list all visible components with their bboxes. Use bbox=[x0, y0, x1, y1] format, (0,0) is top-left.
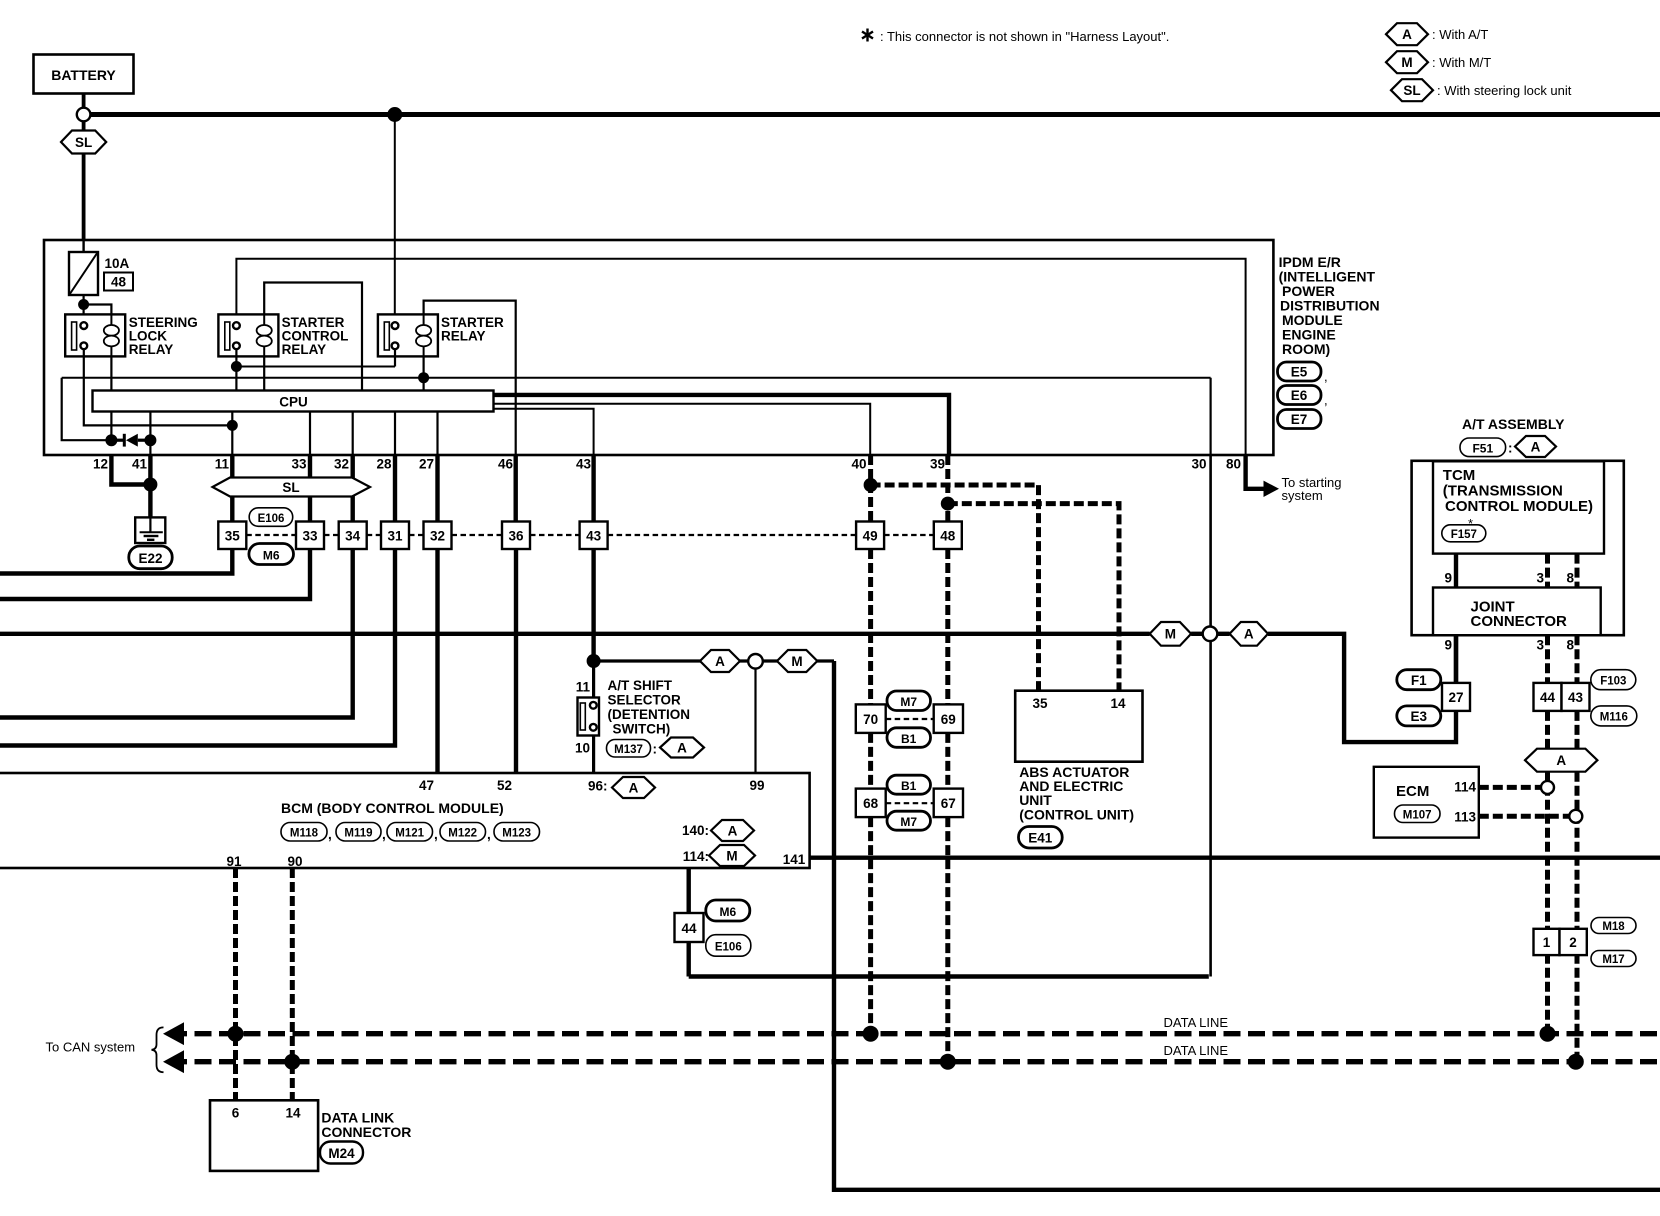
svg-text:27: 27 bbox=[1448, 690, 1463, 705]
wire BCM 141 output bbox=[810, 856, 1660, 860]
wire 48 to 69 checkered bbox=[945, 549, 950, 704]
connector E22 bbox=[129, 546, 172, 569]
wire 70 to 68 checkered bbox=[868, 733, 873, 789]
connector option M hexagon wire3 bbox=[1150, 622, 1191, 646]
wire 43 box down checkered bbox=[1575, 711, 1580, 749]
svg-text:E3: E3 bbox=[1411, 709, 1428, 724]
svg-text:27: 27 bbox=[419, 457, 434, 472]
svg-text:M: M bbox=[791, 654, 802, 669]
svg-text:67: 67 bbox=[941, 796, 956, 811]
svg-text:SWITCH): SWITCH) bbox=[613, 722, 671, 737]
svg-text:A: A bbox=[629, 780, 639, 795]
svg-text:: With steering lock unit: : With steering lock unit bbox=[1437, 83, 1572, 98]
svg-text:M118: M118 bbox=[290, 828, 319, 840]
wire CPU pin to 28 bbox=[394, 412, 396, 456]
svg-text:A/T SHIFT: A/T SHIFT bbox=[608, 678, 673, 693]
node fuse output bbox=[78, 299, 89, 310]
joint connector box bbox=[1433, 588, 1601, 636]
svg-text:114: 114 bbox=[1454, 780, 1476, 795]
connector B1 upper bbox=[887, 728, 931, 748]
node contact rail junction bbox=[231, 361, 242, 372]
terminal box 1 bbox=[1534, 929, 1560, 955]
wire CPU right to pin 40 bbox=[494, 404, 871, 455]
node starter relay coil junction bbox=[418, 372, 429, 383]
svg-text:140:: 140: bbox=[682, 823, 709, 838]
terminal box 33 bbox=[296, 522, 324, 550]
terminal box 48 bbox=[934, 522, 962, 550]
wire BCM 91 to DLC checkered bbox=[233, 868, 238, 1100]
data link connector box bbox=[210, 1100, 411, 1171]
svg-text::: : bbox=[653, 742, 658, 757]
wire to detention switch top bbox=[592, 661, 595, 702]
terminal box 36 bbox=[502, 522, 530, 550]
wire steering relay coil down bbox=[110, 356, 112, 440]
svg-text:44: 44 bbox=[1540, 690, 1556, 705]
svg-text:A: A bbox=[1244, 627, 1254, 642]
relay K3 starter relay bbox=[378, 314, 504, 356]
svg-text:SL: SL bbox=[1403, 83, 1420, 98]
svg-text:9: 9 bbox=[1444, 638, 1452, 653]
svg-text:M17: M17 bbox=[1602, 954, 1624, 966]
wire pin 12 to ground node bbox=[111, 455, 150, 485]
terminal box 27 bbox=[1442, 683, 1470, 711]
svg-text:70: 70 bbox=[863, 712, 878, 727]
node diode-pin41 junction bbox=[144, 434, 156, 446]
wire pin 80 to starting system with arrow bbox=[1246, 455, 1342, 503]
connector M17 bbox=[1591, 951, 1636, 967]
battery junction circle bbox=[77, 108, 91, 122]
svg-text:M24: M24 bbox=[328, 1146, 355, 1161]
svg-text:BCM (BODY CONTROL MODULE): BCM (BODY CONTROL MODULE) bbox=[281, 800, 504, 816]
wire starter control relay contact top to pin80 rail bbox=[236, 259, 1245, 455]
connector M24 bbox=[320, 1142, 363, 1164]
connector option SL hexagon bbox=[61, 131, 106, 154]
node 67 on data2 bbox=[940, 1054, 956, 1070]
connector M7 lower bbox=[887, 811, 931, 830]
svg-text:A: A bbox=[677, 740, 687, 755]
connector M7 upper bbox=[887, 691, 931, 711]
svg-text:48: 48 bbox=[940, 529, 956, 544]
connector F1 bbox=[1397, 670, 1441, 690]
connector M6 BCM bbox=[706, 900, 750, 921]
svg-text:39: 39 bbox=[930, 457, 945, 472]
terminal box 67 bbox=[934, 789, 963, 818]
svg-text:A: A bbox=[1556, 753, 1566, 768]
node wire4 branch bbox=[587, 654, 601, 668]
node ground junction bbox=[143, 478, 157, 492]
wire contact bottoms linked bbox=[236, 366, 395, 368]
wire CPU right to pin 39 bbox=[494, 395, 949, 455]
svg-text:A/T ASSEMBLY: A/T ASSEMBLY bbox=[1462, 416, 1565, 432]
data line 1 bbox=[170, 1031, 1660, 1036]
wire BCM 114 to pin 30 column bbox=[689, 974, 1209, 978]
svg-text:(TRANSMISSION: (TRANSMISSION bbox=[1443, 483, 1563, 500]
wire A hex to data line 1 checkered bbox=[1545, 772, 1550, 1034]
svg-text:E106: E106 bbox=[715, 942, 742, 954]
wire pin 41 to ground bbox=[148, 455, 152, 517]
svg-text:ECM: ECM bbox=[1396, 783, 1429, 800]
wire circle to A hex bbox=[1217, 632, 1229, 636]
wire battery feed to starter relay contact bbox=[394, 115, 396, 323]
wire starter relay coil bottom to line B and CPU bbox=[423, 356, 425, 390]
wire TCM 9 to joint bbox=[1454, 554, 1458, 588]
svg-text:3: 3 bbox=[1536, 571, 1544, 586]
svg-text:44: 44 bbox=[681, 921, 697, 936]
svg-text:E6: E6 bbox=[1291, 388, 1308, 403]
svg-text:E7: E7 bbox=[1291, 412, 1308, 427]
pin labels under IPDM bbox=[93, 457, 1241, 472]
wire joint 8 down checkered bbox=[1575, 635, 1580, 683]
wire TCM 8 to joint checkered bbox=[1575, 554, 1580, 588]
wire fuse bottom bbox=[82, 295, 84, 322]
wire SL hexagon to IPDM bbox=[82, 154, 86, 242]
svg-text:SELECTOR: SELECTOR bbox=[608, 693, 682, 708]
svg-text:43: 43 bbox=[1568, 690, 1584, 705]
svg-text:14: 14 bbox=[285, 1106, 301, 1121]
svg-text:35: 35 bbox=[1032, 696, 1048, 711]
svg-text:M122: M122 bbox=[448, 828, 477, 840]
connector option wide A hexagon bbox=[1525, 749, 1597, 772]
wire 31 to left bbox=[0, 549, 395, 746]
svg-text::: : bbox=[1508, 441, 1513, 456]
svg-text:M6: M6 bbox=[263, 549, 280, 563]
svg-text:33: 33 bbox=[291, 457, 307, 472]
svg-text:31: 31 bbox=[387, 529, 403, 544]
terminal box 69 bbox=[934, 704, 963, 733]
ABS actuator box bbox=[1015, 691, 1142, 823]
wire contact rail between relays bbox=[235, 349, 237, 390]
diode D1 bbox=[111, 434, 150, 447]
svg-text:DATA LINE: DATA LINE bbox=[1164, 1015, 1229, 1030]
svg-text:: This connector is not shown: : This connector is not shown in "Harnes… bbox=[880, 29, 1169, 44]
connector option SL big hexagon bbox=[213, 478, 371, 497]
wire 4 down right side bbox=[834, 661, 1660, 1190]
terminal box 35 bbox=[218, 522, 246, 550]
connector M18 bbox=[1591, 918, 1636, 934]
dashed link 68-67 bbox=[886, 802, 934, 804]
terminal box 2 bbox=[1560, 929, 1587, 955]
wire branch to ABS pin14 checkered bbox=[948, 504, 1119, 691]
svg-text:,: , bbox=[1324, 369, 1328, 384]
svg-text:: With A/T: : With A/T bbox=[1432, 27, 1488, 42]
svg-text:99: 99 bbox=[749, 778, 764, 793]
svg-text:49: 49 bbox=[863, 529, 878, 544]
wire pin 27 column bbox=[435, 455, 439, 522]
wire CPU right to pin 43 bbox=[494, 409, 594, 455]
svg-text:32: 32 bbox=[430, 529, 445, 544]
legend hexagon A bbox=[1386, 23, 1488, 45]
wire battery feed inside IPDM to starter relay bbox=[394, 240, 396, 322]
wire splice to BCM 99 bbox=[754, 669, 756, 773]
svg-text:11: 11 bbox=[215, 457, 230, 472]
terminal box 31 bbox=[381, 522, 409, 550]
wire pin 43 column bbox=[591, 455, 595, 522]
arrow data line 1 bbox=[163, 1022, 184, 1045]
splice circle ECM 113 bbox=[1569, 810, 1582, 823]
terminal box 44 BCM bbox=[675, 913, 704, 942]
svg-text:91: 91 bbox=[226, 854, 242, 869]
svg-text:E5: E5 bbox=[1291, 365, 1308, 380]
node pin11 junction bbox=[227, 420, 238, 431]
svg-text:48: 48 bbox=[111, 275, 127, 290]
wire ECM 114 checkered bbox=[1479, 785, 1542, 790]
splice circle wire4 bbox=[748, 654, 763, 669]
svg-text:To CAN system: To CAN system bbox=[46, 1040, 136, 1055]
wire TCM 3 to joint checkered bbox=[1545, 554, 1550, 588]
svg-text:47: 47 bbox=[419, 778, 434, 793]
pin labels 9 3 8 upper bbox=[1444, 571, 1574, 586]
terminal box 43 right bbox=[1562, 683, 1590, 711]
node BCM91 on data1 bbox=[228, 1026, 244, 1042]
wire 44 box down checkered bbox=[1545, 711, 1550, 749]
svg-text:A: A bbox=[1531, 439, 1541, 454]
svg-text:M: M bbox=[726, 848, 737, 863]
wire battery bus bbox=[90, 112, 1660, 117]
svg-text:141: 141 bbox=[783, 852, 806, 867]
wire M hex to circle bbox=[1191, 632, 1203, 636]
svg-text:6: 6 bbox=[232, 1106, 240, 1121]
wire 3 to joint connector pin 9 bbox=[1268, 634, 1456, 742]
wire fuse to steering relay coil bbox=[84, 305, 112, 327]
connector B1 lower bbox=[887, 775, 931, 794]
wire 69 to 67 checkered bbox=[945, 733, 950, 789]
wire 43 to detention switch bbox=[591, 549, 595, 661]
svg-text:E22: E22 bbox=[138, 551, 162, 566]
svg-text:11: 11 bbox=[576, 680, 591, 695]
svg-text:M7: M7 bbox=[900, 815, 917, 829]
wire line B to pin 30 bbox=[1209, 378, 1211, 455]
legend hexagon SL bbox=[1391, 79, 1572, 101]
svg-text:CONNECTOR: CONNECTOR bbox=[321, 1124, 411, 1140]
svg-text:,: , bbox=[1324, 393, 1328, 408]
wire pin 39 column checkered bbox=[945, 455, 950, 522]
svg-text:8: 8 bbox=[1566, 571, 1574, 586]
wire pin 40 column checkered bbox=[868, 455, 873, 522]
svg-text:1: 1 bbox=[1543, 935, 1551, 950]
svg-text:(CONTROL UNIT): (CONTROL UNIT) bbox=[1019, 807, 1134, 823]
wire branch to ABS pin35 checkered bbox=[871, 485, 1039, 691]
wire pin 32 column bbox=[351, 455, 355, 522]
wire 34 to left bbox=[0, 549, 353, 718]
svg-text:35: 35 bbox=[225, 529, 241, 544]
wire pin 33 column bbox=[308, 455, 312, 522]
svg-text:M6: M6 bbox=[719, 905, 736, 919]
svg-text:80: 80 bbox=[1226, 457, 1241, 472]
svg-text:96:: 96: bbox=[588, 779, 608, 794]
svg-text:10: 10 bbox=[575, 741, 590, 756]
svg-text:34: 34 bbox=[345, 529, 361, 544]
svg-text:8: 8 bbox=[1566, 638, 1574, 653]
wire joint 3 down checkered bbox=[1545, 635, 1550, 683]
svg-text:TCM: TCM bbox=[1443, 467, 1476, 484]
svg-text:F103: F103 bbox=[1600, 676, 1626, 688]
BCM box bbox=[0, 773, 810, 869]
svg-text:B1: B1 bbox=[901, 732, 917, 746]
wire pin 28 column bbox=[393, 455, 397, 522]
svg-text:F1: F1 bbox=[1411, 673, 1427, 688]
svg-text:M116: M116 bbox=[1600, 712, 1628, 724]
wire pin 30 column lower bbox=[1209, 641, 1212, 976]
svg-text:ROOM): ROOM) bbox=[1282, 341, 1330, 357]
connector E5 bbox=[1278, 362, 1328, 384]
wire CPU pin to 11 bbox=[231, 412, 233, 456]
wire 36 to BCM 52 bbox=[514, 549, 518, 773]
svg-text:,: , bbox=[328, 827, 332, 842]
svg-text:M119: M119 bbox=[344, 828, 372, 840]
terminal box 32 bbox=[424, 522, 452, 550]
data line 2 bbox=[170, 1059, 1660, 1064]
node BCM90 on data2 bbox=[284, 1054, 300, 1070]
svg-text:113: 113 bbox=[1454, 810, 1476, 825]
connector M116 bbox=[1591, 706, 1637, 726]
connector row E106/M6 dashed links bbox=[246, 534, 934, 536]
connector M137 with A bbox=[607, 738, 705, 758]
svg-text:SL: SL bbox=[75, 135, 92, 150]
connector option A hexagon wire4 bbox=[700, 650, 740, 672]
wire 68 to data line 1 checkered bbox=[868, 817, 873, 1034]
svg-text:F51: F51 bbox=[1472, 442, 1493, 456]
svg-text:CPU: CPU bbox=[279, 395, 308, 410]
node bus junction bbox=[387, 107, 402, 122]
wire line B left leg bbox=[62, 378, 112, 441]
svg-text:M137: M137 bbox=[614, 744, 643, 756]
svg-text:A: A bbox=[715, 654, 725, 669]
svg-text:,: , bbox=[487, 827, 491, 842]
wire circle to SL hexagon bbox=[82, 121, 86, 131]
A/T assembly label bbox=[1460, 416, 1565, 457]
svg-text:28: 28 bbox=[376, 457, 392, 472]
arrow data line 2 bbox=[163, 1050, 184, 1073]
svg-text:: With M/T: : With M/T bbox=[1432, 55, 1491, 70]
wire battery to circle bbox=[82, 94, 86, 109]
A/T assembly enclosure bbox=[1412, 461, 1624, 635]
connector E106 BCM bbox=[706, 935, 751, 957]
svg-text:E41: E41 bbox=[1028, 831, 1053, 846]
fuse 10A 48 bbox=[69, 252, 133, 295]
splice circle ECM 114 bbox=[1541, 781, 1554, 794]
wire steering relay contact to pin 11 bbox=[84, 349, 233, 425]
svg-text:,: , bbox=[434, 827, 438, 842]
svg-text:system: system bbox=[1282, 488, 1323, 503]
node pin40 branch bbox=[864, 478, 878, 492]
wire A hex to data line 2 checkered bbox=[1575, 772, 1580, 1062]
terminal box 70 bbox=[856, 704, 886, 733]
svg-text:114:: 114: bbox=[683, 849, 709, 864]
wire long M/A line bbox=[0, 632, 1150, 636]
wire CPU pin to 33 bbox=[309, 412, 311, 456]
svg-text:68: 68 bbox=[863, 796, 879, 811]
svg-text:E106: E106 bbox=[258, 513, 285, 525]
legend hexagon M bbox=[1386, 51, 1491, 73]
svg-text:33: 33 bbox=[302, 529, 318, 544]
svg-text:RELAY: RELAY bbox=[282, 342, 327, 357]
svg-text:2: 2 bbox=[1569, 935, 1577, 950]
svg-text:52: 52 bbox=[497, 778, 512, 793]
svg-text:A: A bbox=[728, 823, 738, 838]
IPDM label text bbox=[1279, 254, 1380, 357]
splice circle wire3 on pin30 bbox=[1203, 627, 1218, 642]
CAN brace bbox=[152, 1027, 164, 1072]
svg-text:M121: M121 bbox=[395, 828, 424, 840]
legend asterisk note bbox=[862, 29, 1169, 45]
ECM box bbox=[1374, 767, 1479, 838]
svg-text:RELAY: RELAY bbox=[129, 342, 174, 357]
wire battery feed inside IPDM to fuse bbox=[82, 240, 84, 253]
connector option M hexagon wire4 bbox=[777, 650, 817, 672]
wire starter control coil loop to CPU bbox=[264, 283, 362, 391]
connector E6 bbox=[1278, 386, 1328, 408]
wire BCM 114 down bbox=[687, 868, 691, 977]
wire 49 to 70 checkered bbox=[868, 549, 873, 704]
svg-text:46: 46 bbox=[498, 457, 514, 472]
svg-text:RELAY: RELAY bbox=[441, 329, 486, 344]
svg-text:CONNECTOR: CONNECTOR bbox=[1471, 613, 1568, 630]
svg-text:(DETENTION: (DETENTION bbox=[608, 707, 691, 722]
svg-text:90: 90 bbox=[287, 854, 302, 869]
svg-text:M: M bbox=[1165, 627, 1176, 642]
wire pin 46 column bbox=[514, 455, 518, 522]
svg-text:M18: M18 bbox=[1602, 921, 1625, 933]
dashed link 70-69 bbox=[886, 718, 934, 720]
svg-text:M: M bbox=[1401, 55, 1412, 70]
svg-text:41: 41 bbox=[132, 457, 148, 472]
node data1-TCM3 junction bbox=[1540, 1026, 1556, 1042]
wire starter control coil bottom to CPU bbox=[263, 356, 265, 390]
wire 35 to left bbox=[0, 549, 232, 574]
connector option A hexagon wire3 bbox=[1230, 622, 1268, 646]
svg-text:69: 69 bbox=[941, 712, 956, 727]
wire starter relay contact bottom bbox=[394, 349, 396, 366]
relay K2 starter control relay bbox=[218, 314, 348, 357]
svg-text:32: 32 bbox=[334, 457, 349, 472]
svg-text:BATTERY: BATTERY bbox=[51, 67, 116, 83]
wire 33 to left bbox=[0, 549, 310, 599]
svg-text:DATA LINE: DATA LINE bbox=[1164, 1043, 1229, 1058]
wire CPU pin to 27 bbox=[436, 412, 438, 456]
wire joint 9 down bbox=[1454, 635, 1458, 683]
wire CPU pin to 41 bbox=[149, 412, 151, 456]
svg-text:M7: M7 bbox=[900, 695, 917, 709]
svg-text:12: 12 bbox=[93, 457, 108, 472]
node 68 on data1 bbox=[863, 1026, 879, 1042]
wire CPU pin to 32 bbox=[352, 412, 354, 456]
terminal box 44 bbox=[1534, 683, 1562, 711]
connector E3 bbox=[1397, 706, 1441, 726]
node data2-TCM8 junction bbox=[1568, 1054, 1584, 1070]
node pin39 branch bbox=[941, 497, 955, 511]
battery box bbox=[34, 55, 134, 94]
svg-text:F157: F157 bbox=[1451, 529, 1477, 541]
terminal box 68 bbox=[856, 789, 886, 818]
svg-text:M107: M107 bbox=[1403, 810, 1432, 822]
svg-text:SL: SL bbox=[282, 480, 299, 495]
svg-text:10A: 10A bbox=[105, 256, 130, 271]
svg-text:43: 43 bbox=[586, 529, 602, 544]
connector M6 bbox=[249, 544, 294, 565]
connector F103 bbox=[1591, 670, 1636, 690]
TCM box bbox=[1433, 461, 1604, 553]
wire line B horizontal bbox=[62, 377, 1211, 379]
svg-text:40: 40 bbox=[851, 457, 866, 472]
wire 32 to BCM 47 bbox=[435, 549, 439, 773]
terminal box 34 bbox=[339, 522, 367, 550]
wire ECM 113 checkered bbox=[1479, 814, 1570, 819]
connector E106 bbox=[249, 508, 293, 527]
svg-text:CONTROL MODULE): CONTROL MODULE) bbox=[1445, 498, 1593, 515]
svg-text:B1: B1 bbox=[901, 779, 917, 793]
terminal box 49 bbox=[856, 522, 884, 550]
A/T shift selector detention switch bbox=[575, 678, 690, 756]
